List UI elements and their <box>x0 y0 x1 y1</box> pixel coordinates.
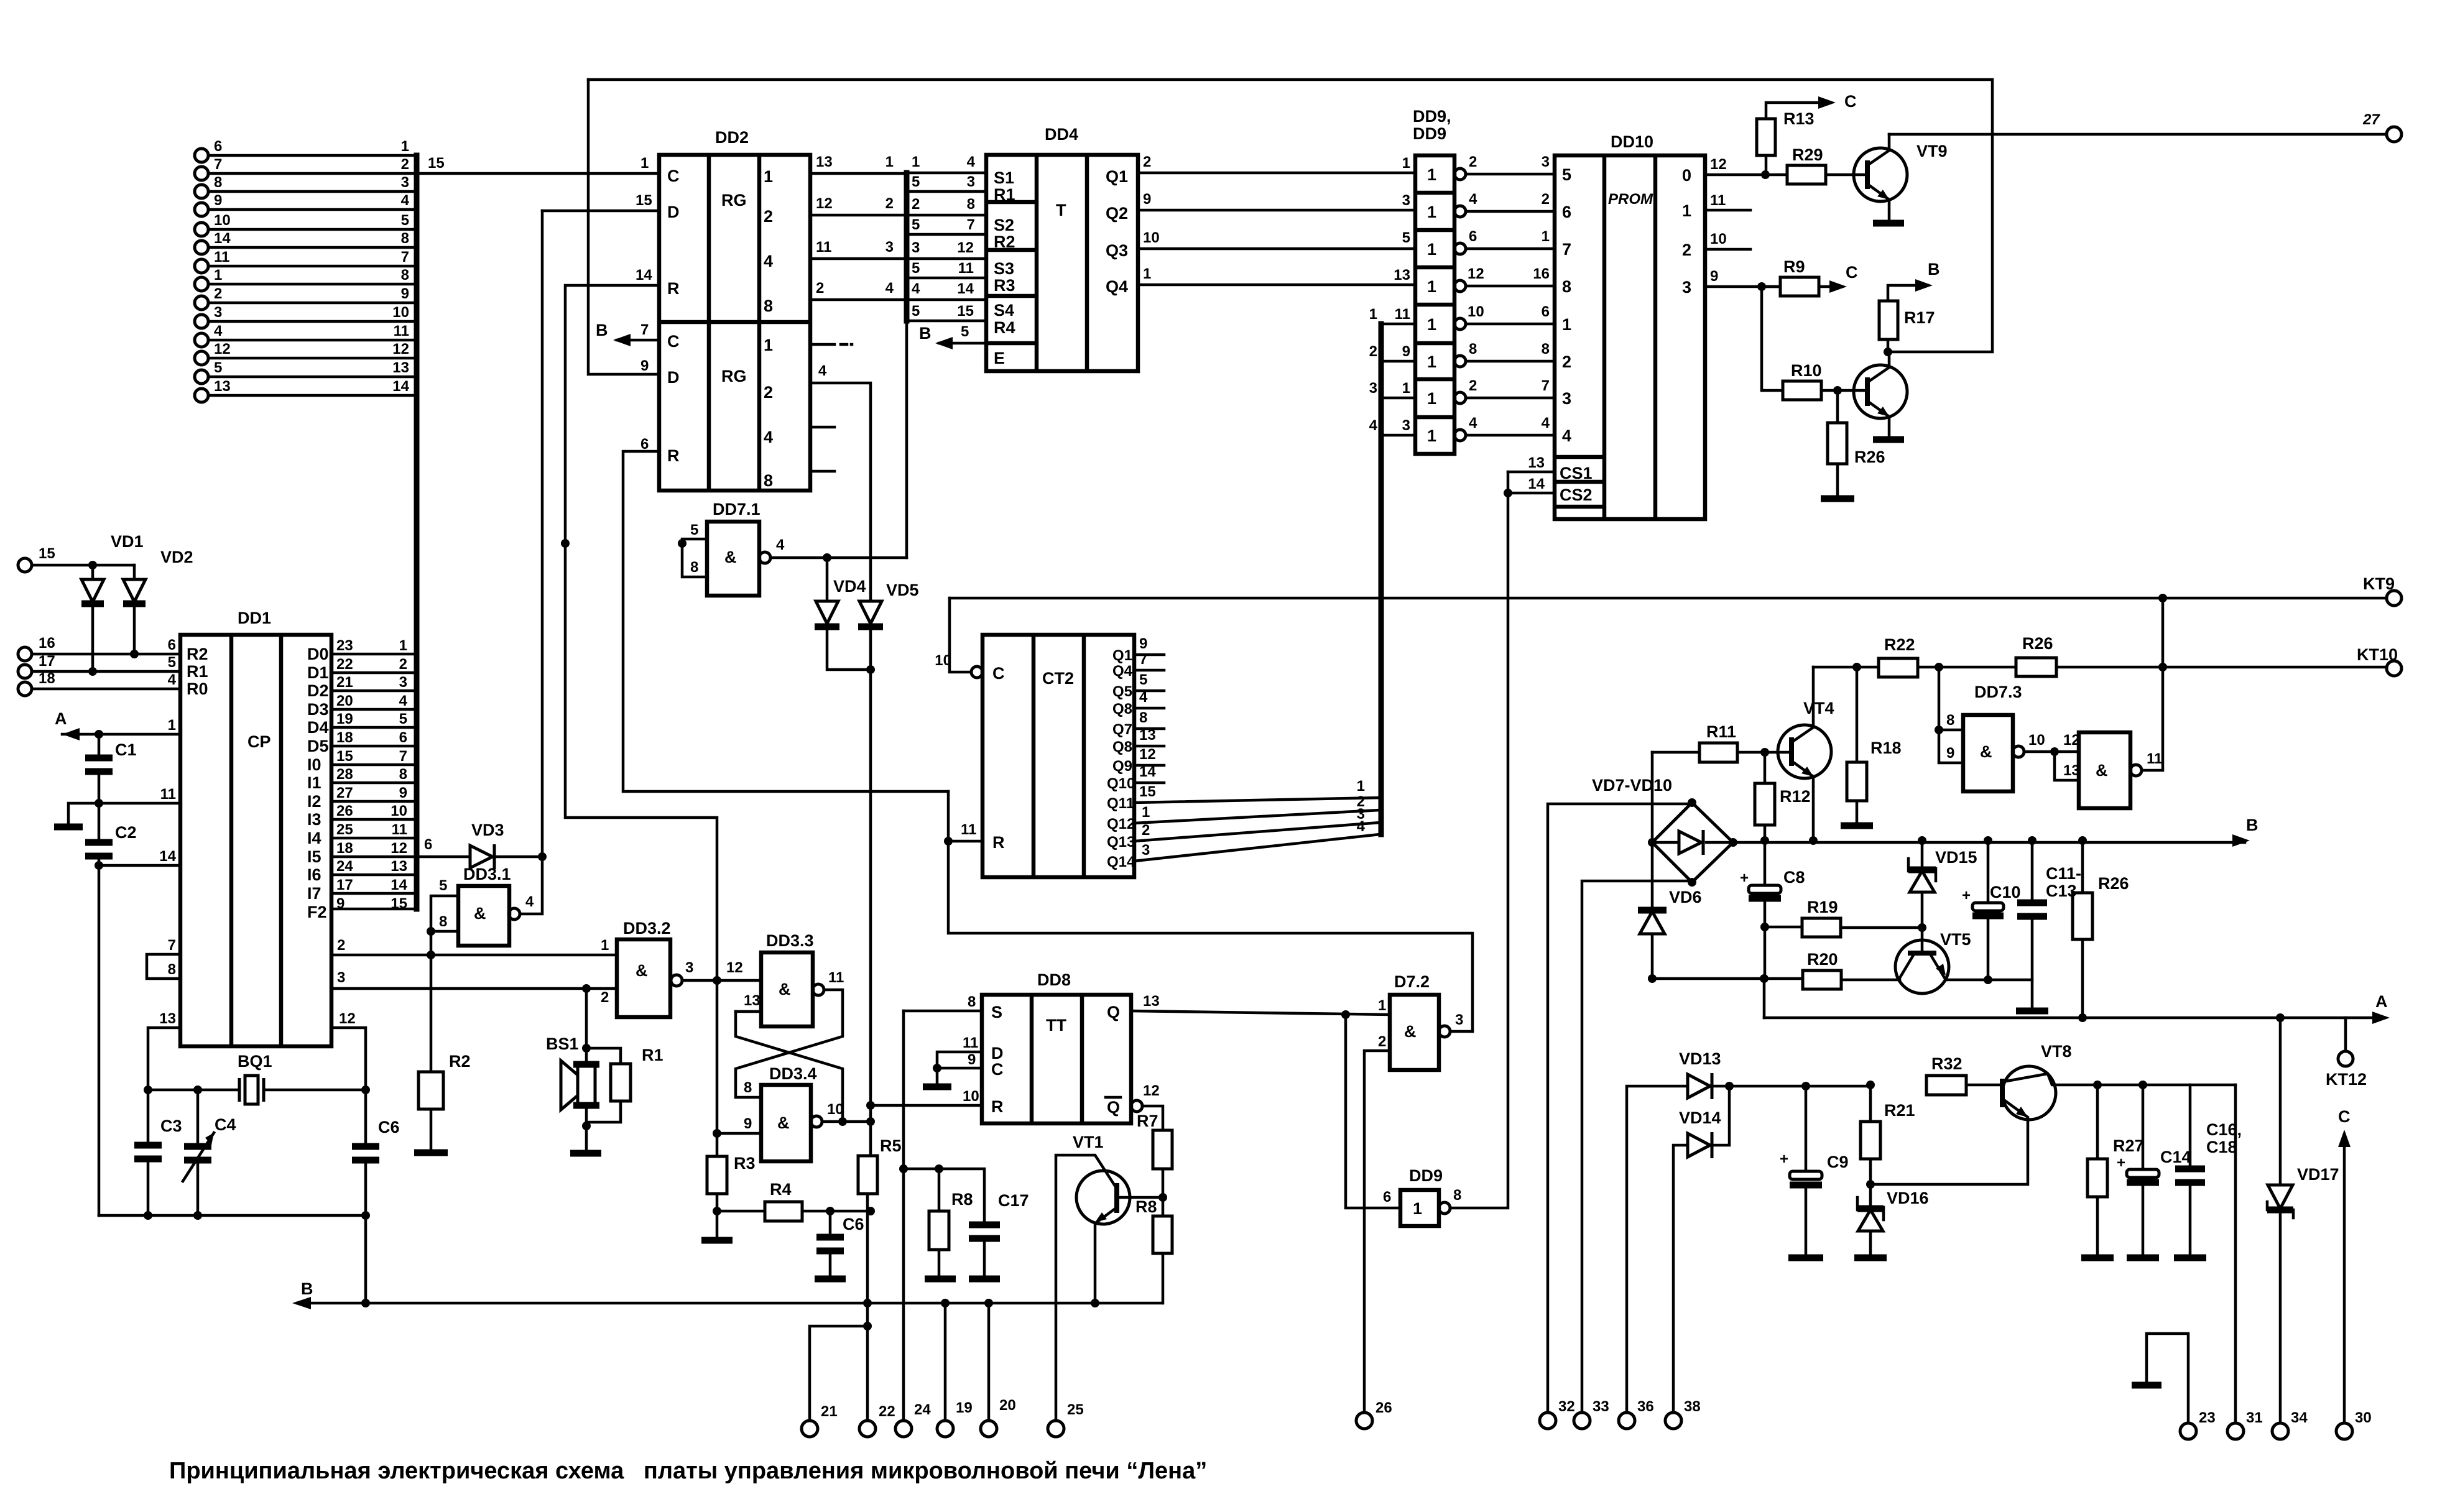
wire DD9 gate output up to DD10 CS <box>1450 472 1508 1208</box>
transistor VT10 <box>1854 352 1907 437</box>
svg-text:R21: R21 <box>1884 1101 1915 1120</box>
nand gate DD3.4 <box>713 1064 875 1161</box>
wire D7.2 pin1 node down to DD9 gate pin6 <box>1346 1015 1400 1208</box>
svg-text:20: 20 <box>999 1397 1016 1414</box>
svg-text:C4: C4 <box>215 1115 236 1134</box>
resistor R21 <box>1861 1085 1915 1189</box>
svg-text:&: & <box>2096 761 2108 780</box>
svg-text:32: 32 <box>1558 1398 1575 1415</box>
svg-text:2: 2 <box>912 196 920 213</box>
svg-text:1: 1 <box>764 336 773 354</box>
svg-text:&: & <box>777 1113 790 1132</box>
svg-text:11: 11 <box>963 1035 978 1051</box>
svg-text:3: 3 <box>1682 278 1691 297</box>
ground (R8 left) <box>925 1276 956 1283</box>
terminal circles column <box>195 149 208 402</box>
timer block DD4 <box>986 125 1138 371</box>
svg-text:R11: R11 <box>1706 722 1736 741</box>
svg-text:13: 13 <box>1528 454 1545 471</box>
svg-text:Q: Q <box>1107 1098 1120 1117</box>
svg-text:D7.2: D7.2 <box>1394 972 1430 991</box>
svg-text:TT: TT <box>1046 1016 1066 1035</box>
net C arrow (R9) <box>1829 263 1858 293</box>
diode VD1 <box>81 561 104 676</box>
svg-text:1: 1 <box>1413 1199 1422 1218</box>
svg-text:1: 1 <box>1427 165 1436 184</box>
svg-text:3: 3 <box>1142 842 1150 859</box>
svg-text:C: C <box>667 332 680 351</box>
svg-text:R22: R22 <box>1884 635 1915 654</box>
svg-text:10: 10 <box>392 304 409 321</box>
svg-text:C11-: C11- <box>2046 864 2081 883</box>
transistor VT4 <box>1778 667 1834 841</box>
CPU block DD1 <box>147 609 415 1046</box>
svg-text:8: 8 <box>439 913 447 930</box>
svg-text:R4: R4 <box>994 318 1015 337</box>
svg-text:DD4: DD4 <box>1045 125 1078 144</box>
svg-text:6: 6 <box>399 729 407 746</box>
svg-text:6: 6 <box>1562 203 1571 221</box>
top supply bus wire <box>588 80 1992 352</box>
svg-text:13: 13 <box>159 1010 176 1027</box>
resistor R26 (emitter divider) <box>1828 390 1885 496</box>
wire R node vertical to D7.2 output <box>948 791 1473 1031</box>
wire terminal16 to DD1.R2 <box>32 653 180 656</box>
svg-text:R1: R1 <box>187 662 208 681</box>
svg-text:11: 11 <box>214 249 229 265</box>
svg-text:10: 10 <box>391 803 407 819</box>
svg-text:B: B <box>919 324 932 343</box>
svg-text:C8: C8 <box>1783 868 1805 887</box>
svg-text:3: 3 <box>337 969 345 986</box>
terminal KT9 <box>2363 574 2402 606</box>
resistor R4 <box>717 1180 875 1221</box>
svg-text:I0: I0 <box>307 755 321 774</box>
svg-text:DD9: DD9 <box>1409 1166 1443 1185</box>
ground (R26) <box>1821 496 1854 502</box>
svg-text:7: 7 <box>214 156 222 173</box>
resistor R26 (top) <box>2016 634 2056 676</box>
svg-text:7: 7 <box>1562 240 1571 259</box>
input terminal 15 <box>18 545 134 572</box>
svg-text:12: 12 <box>339 1010 356 1027</box>
wire DD1 pin14 row <box>95 861 180 1215</box>
input connector terminals (pins 6,7,8,9,10,14,11,1,2,3,4,12,5,13) <box>195 138 659 909</box>
svg-text:1: 1 <box>1378 997 1386 1014</box>
svg-text:4: 4 <box>1469 415 1477 431</box>
svg-text:2: 2 <box>885 195 894 212</box>
svg-text:DD7.3: DD7.3 <box>1974 683 2022 701</box>
svg-text:26: 26 <box>336 803 353 819</box>
svg-text:5: 5 <box>399 711 407 727</box>
svg-text:VT5: VT5 <box>1940 930 1971 949</box>
svg-text:7: 7 <box>1542 377 1550 394</box>
svg-text:R29: R29 <box>1792 145 1823 164</box>
terminal 26 <box>1356 1399 1392 1429</box>
terminal 27 <box>2362 111 2402 142</box>
svg-text:10: 10 <box>214 212 231 229</box>
terminal 38 <box>1665 1145 1701 1429</box>
svg-text:4: 4 <box>818 362 827 379</box>
svg-text:DD9: DD9 <box>1413 124 1446 143</box>
svg-text:Q1: Q1 <box>1112 647 1132 664</box>
svg-text:DD7.1: DD7.1 <box>713 500 761 519</box>
input terminal 16 <box>18 635 180 661</box>
svg-text:8: 8 <box>1946 712 1954 729</box>
svg-text:1: 1 <box>640 155 649 172</box>
svg-text:Q4: Q4 <box>1112 663 1133 680</box>
svg-text:2: 2 <box>1469 154 1477 170</box>
diode VD4 <box>815 558 871 670</box>
svg-text:3: 3 <box>685 959 693 976</box>
wire DD8.Qbar to R7 <box>1142 1106 1163 1130</box>
svg-text:VD1: VD1 <box>111 532 144 551</box>
svg-text:I4: I4 <box>307 829 321 847</box>
svg-text:21: 21 <box>821 1403 838 1420</box>
svg-text:1: 1 <box>1402 155 1410 172</box>
capacitor C8 (electrolytic) <box>1740 841 1805 927</box>
nand gate DD7.3 second half <box>2055 598 2163 808</box>
crystal BQ1 <box>144 1052 370 1104</box>
svg-text:KT10: KT10 <box>2357 645 2398 664</box>
resistor R1 <box>586 1046 663 1122</box>
transistor VT1 <box>1056 1133 1130 1421</box>
svg-text:10: 10 <box>1468 303 1484 320</box>
svg-text:13: 13 <box>2063 762 2080 779</box>
svg-text:16: 16 <box>39 635 55 652</box>
capacitor C6 (second) <box>816 1211 864 1276</box>
svg-text:1: 1 <box>1427 389 1436 408</box>
svg-text:D4: D4 <box>307 718 329 737</box>
ground (R27) <box>2081 1255 2114 1261</box>
capacitors C11-C13 <box>1988 841 2081 1008</box>
svg-text:D2: D2 <box>307 681 329 700</box>
svg-text:R7: R7 <box>1137 1112 1158 1130</box>
svg-text:B: B <box>596 321 608 339</box>
svg-text:VD4: VD4 <box>833 577 866 596</box>
sound emitter BS1 <box>546 989 621 1151</box>
svg-text:4: 4 <box>1369 417 1378 434</box>
svg-text:A: A <box>55 709 67 728</box>
svg-text:19: 19 <box>956 1399 973 1416</box>
svg-text:12: 12 <box>1139 746 1156 763</box>
DD10 CS cell <box>1555 455 1604 459</box>
svg-text:4: 4 <box>399 693 408 709</box>
svg-text:23: 23 <box>2199 1409 2216 1426</box>
terminal 19 <box>937 1299 973 1437</box>
transistor VT9 <box>1854 134 1948 221</box>
svg-text:+: + <box>1780 1151 1788 1168</box>
svg-text:4: 4 <box>168 671 177 688</box>
RS latch cross wiring DD3.3/DD3.4 <box>736 990 847 1126</box>
nand gate D7.2 <box>1341 972 1473 1413</box>
svg-text:9: 9 <box>1946 745 1954 762</box>
svg-text:13: 13 <box>391 858 407 875</box>
svg-text:VT1: VT1 <box>1073 1133 1104 1151</box>
svg-text:13: 13 <box>1143 993 1160 1010</box>
resistor R8 (left, near C17) <box>929 1169 973 1276</box>
svg-text:1: 1 <box>168 717 176 734</box>
wire CT2.C to KT9 line <box>950 598 971 672</box>
svg-text:VD7-VD10: VD7-VD10 <box>1592 776 1672 795</box>
svg-text:18: 18 <box>336 840 353 857</box>
capacitor C1 <box>85 734 137 803</box>
thick bus CT2 to DD9 inverters <box>1379 324 1384 834</box>
svg-text:R2: R2 <box>994 233 1015 251</box>
svg-text:+: + <box>1962 887 1971 904</box>
svg-text:R: R <box>667 446 680 465</box>
zener diode VD15 <box>1908 841 1977 928</box>
svg-text:R26: R26 <box>2098 874 2129 893</box>
svg-text:Q9: Q9 <box>1112 758 1132 775</box>
svg-text:7: 7 <box>640 321 649 338</box>
svg-text:R9: R9 <box>1783 257 1805 276</box>
svg-text:1: 1 <box>1542 228 1550 245</box>
DD1 right pin numbers (inner) <box>336 637 353 912</box>
svg-text:C9: C9 <box>1827 1153 1849 1171</box>
svg-text:2: 2 <box>764 207 773 226</box>
svg-text:13: 13 <box>214 378 231 395</box>
net B arrow (R17) <box>1915 260 1940 292</box>
wire DD3.1 output 4 up to DD2.D <box>520 211 542 914</box>
diode VD2 <box>123 565 146 658</box>
wire VD13 net to R32/R21 <box>1866 1081 1875 1089</box>
svg-text:R8: R8 <box>1135 1197 1157 1216</box>
svg-text:12: 12 <box>726 959 743 976</box>
svg-text:14: 14 <box>957 280 974 297</box>
terminal 33 <box>1574 881 1692 1429</box>
svg-text:R32: R32 <box>1931 1054 1963 1073</box>
svg-text:8: 8 <box>399 766 407 783</box>
svg-text:27: 27 <box>2362 111 2380 128</box>
svg-text:D: D <box>667 368 680 387</box>
svg-text:34: 34 <box>2291 1409 2308 1426</box>
svg-text:S3: S3 <box>994 259 1014 278</box>
svg-text:Q2: Q2 <box>1106 204 1128 223</box>
DD9 output circles <box>1454 168 1466 441</box>
capacitor C17 <box>899 1164 1029 1276</box>
svg-text:31: 31 <box>2246 1409 2263 1426</box>
svg-text:VD5: VD5 <box>886 581 919 599</box>
svg-text:C: C <box>2338 1107 2351 1126</box>
wire VD6 anode to net A / R20 <box>1652 977 1803 980</box>
wire DD3.4 out to VD5 net <box>822 1120 871 1123</box>
svg-text:2: 2 <box>1682 241 1691 259</box>
svg-text:9: 9 <box>640 357 649 374</box>
svg-text:7: 7 <box>401 249 409 265</box>
svg-text:1: 1 <box>1427 353 1436 371</box>
ground (C9) <box>1788 1255 1823 1261</box>
svg-text:BQ1: BQ1 <box>238 1052 272 1071</box>
terminal 25 <box>1048 1401 1084 1437</box>
svg-text:C6: C6 <box>843 1215 864 1233</box>
svg-text:3: 3 <box>1542 154 1550 170</box>
svg-text:5: 5 <box>912 173 920 190</box>
DD4 outputs Q1-Q4 to DD9 inverters <box>1138 154 1415 285</box>
resistor R7 <box>1137 1112 1172 1197</box>
svg-text:DD3.4: DD3.4 <box>769 1064 817 1083</box>
svg-text:Q5: Q5 <box>1112 683 1132 700</box>
svg-text:11: 11 <box>958 260 974 277</box>
svg-text:9: 9 <box>1143 191 1151 208</box>
resistor R20 <box>1803 950 1900 989</box>
svg-text:S: S <box>991 1003 1002 1021</box>
wire net KT9 (CT2.C line) <box>950 594 2387 602</box>
svg-text:11: 11 <box>160 786 176 803</box>
wire DD7.1 output to VD4 and bus <box>770 556 907 560</box>
svg-text:8: 8 <box>968 993 976 1010</box>
diode VD5 <box>858 581 919 1156</box>
svg-text:VD17: VD17 <box>2297 1165 2339 1184</box>
svg-text:14: 14 <box>1528 476 1545 492</box>
svg-text:1: 1 <box>1562 315 1571 334</box>
wire DD8.S input from terminal 24 line <box>904 1010 982 1013</box>
terminal KT12 <box>2326 1018 2367 1089</box>
svg-text:4: 4 <box>1542 415 1550 431</box>
svg-text:9: 9 <box>744 1115 752 1132</box>
svg-text:1: 1 <box>401 138 409 155</box>
svg-text:10: 10 <box>827 1101 844 1118</box>
svg-text:1: 1 <box>1357 778 1365 795</box>
svg-text:R26: R26 <box>1854 448 1885 466</box>
svg-text:CP: CP <box>247 732 271 751</box>
CT2 outputs Q11-Q14 to thick bus <box>1134 798 1380 861</box>
terminal KT10 <box>2357 645 2402 676</box>
wire DD1 pin11 to ground <box>68 799 180 824</box>
register block DD2 (two RG halves) <box>636 128 810 491</box>
svg-text:I5: I5 <box>307 847 321 866</box>
wire VT9 collector to terminal 27 <box>1889 133 2387 136</box>
svg-text:C10: C10 <box>1990 883 2021 901</box>
nand gate DD3.1 <box>427 211 547 955</box>
svg-text:3: 3 <box>401 174 409 191</box>
svg-text:10: 10 <box>1710 231 1727 247</box>
svg-text:&: & <box>1980 742 1992 761</box>
variable capacitor C4 <box>183 1090 236 1215</box>
capacitor C6 (oscillator) <box>352 1090 400 1304</box>
terminal 23 with ground <box>2147 1334 2216 1439</box>
svg-text:R12: R12 <box>1780 787 1811 806</box>
svg-text:5: 5 <box>401 212 409 229</box>
svg-text:C18: C18 <box>2206 1138 2237 1156</box>
svg-text:Q11: Q11 <box>1107 795 1134 812</box>
svg-text:5: 5 <box>1562 165 1571 184</box>
svg-text:RG: RG <box>721 367 747 385</box>
svg-text:R0: R0 <box>187 680 208 698</box>
svg-text:6: 6 <box>1542 303 1550 320</box>
svg-text:F2: F2 <box>307 903 327 921</box>
svg-text:2: 2 <box>399 656 407 673</box>
DD1 ladder wire numbers <box>391 637 407 912</box>
svg-text:D1: D1 <box>307 663 329 682</box>
svg-text:9: 9 <box>1710 268 1718 285</box>
interstage bus DD2-DD4 <box>904 173 910 558</box>
svg-text:C2: C2 <box>115 823 137 842</box>
svg-text:8: 8 <box>1453 1187 1461 1204</box>
nand gate DD7.1 <box>678 500 907 596</box>
svg-text:R18: R18 <box>1870 739 1902 757</box>
svg-text:4: 4 <box>912 280 920 297</box>
svg-text:5: 5 <box>961 323 969 340</box>
svg-text:&: & <box>474 904 486 923</box>
DD9 outputs to DD10 <box>1466 174 1555 435</box>
terminal 24 <box>895 1401 931 1437</box>
svg-text:R3: R3 <box>994 276 1015 295</box>
wire R9 node down to R10 <box>1762 287 1783 390</box>
diode bridge VD7-VD10 <box>1592 752 1737 909</box>
wire DD2.D feedback input <box>542 210 659 213</box>
svg-text:26: 26 <box>1375 1399 1392 1416</box>
nand gate DD3.2 <box>601 919 761 1017</box>
svg-text:8: 8 <box>764 471 773 490</box>
resistor R13 <box>1757 103 1831 175</box>
svg-text:9: 9 <box>399 785 407 801</box>
svg-text:1: 1 <box>1142 804 1150 821</box>
svg-text:7: 7 <box>1139 651 1147 668</box>
svg-text:8: 8 <box>967 196 975 213</box>
resistor R27 <box>2087 1081 2144 1255</box>
svg-text:&: & <box>636 961 648 980</box>
svg-text:VD2: VD2 <box>160 548 193 566</box>
svg-text:3: 3 <box>912 239 920 256</box>
diode VD13 <box>1679 1049 1870 1099</box>
CT2 output stubs Q1-Q10 <box>1134 655 1164 783</box>
svg-text:R1: R1 <box>642 1046 663 1064</box>
svg-text:8: 8 <box>690 559 698 576</box>
svg-text:3: 3 <box>1562 389 1571 408</box>
svg-text:9: 9 <box>1402 343 1410 360</box>
nand gate DD7.3 first half <box>1935 667 2079 791</box>
svg-text:1: 1 <box>1143 265 1151 282</box>
svg-text:R10: R10 <box>1791 361 1822 380</box>
svg-text:1: 1 <box>912 154 920 170</box>
svg-text:C17: C17 <box>998 1191 1029 1210</box>
svg-text:4: 4 <box>1139 689 1148 706</box>
svg-text:C: C <box>1844 92 1857 111</box>
svg-text:15: 15 <box>336 748 353 765</box>
svg-text:3: 3 <box>399 674 407 691</box>
svg-text:R26: R26 <box>2022 634 2053 653</box>
svg-text:B: B <box>2246 816 2259 834</box>
svg-text:A: A <box>2375 992 2388 1011</box>
resistor R10 <box>1783 361 1867 400</box>
PROM block DD10 <box>1504 132 1787 519</box>
svg-text:R: R <box>667 279 680 298</box>
oscillator bottom rail <box>99 1211 370 1220</box>
terminal 32 <box>1540 804 1692 1429</box>
svg-text:13: 13 <box>816 154 833 170</box>
nand gate DD3.3 <box>736 931 844 1026</box>
input terminal 17 <box>18 653 180 678</box>
svg-text:6: 6 <box>1469 228 1477 245</box>
DD8 Qbar output circle <box>1131 1100 1142 1112</box>
bus to DD4 input stubs <box>907 154 986 321</box>
svg-text:DD1: DD1 <box>238 609 271 627</box>
svg-text:11: 11 <box>394 323 409 339</box>
svg-text:14: 14 <box>391 877 407 893</box>
svg-text:DD9,: DD9, <box>1413 107 1451 126</box>
terminal 21 <box>802 1326 867 1437</box>
DD2 lower outputs <box>810 344 871 601</box>
svg-text:1: 1 <box>399 637 407 654</box>
inverter column DD9,DD9 <box>1369 107 1555 454</box>
svg-text:2: 2 <box>601 989 609 1006</box>
terminal 36 <box>1619 1086 1688 1429</box>
wire top bus to DD2 lower D pin9 <box>588 80 659 374</box>
ground (DD1 pin 11) <box>54 824 83 831</box>
svg-text:VD3: VD3 <box>471 821 504 839</box>
wire terminal18 to DD1.R0 <box>32 688 180 691</box>
